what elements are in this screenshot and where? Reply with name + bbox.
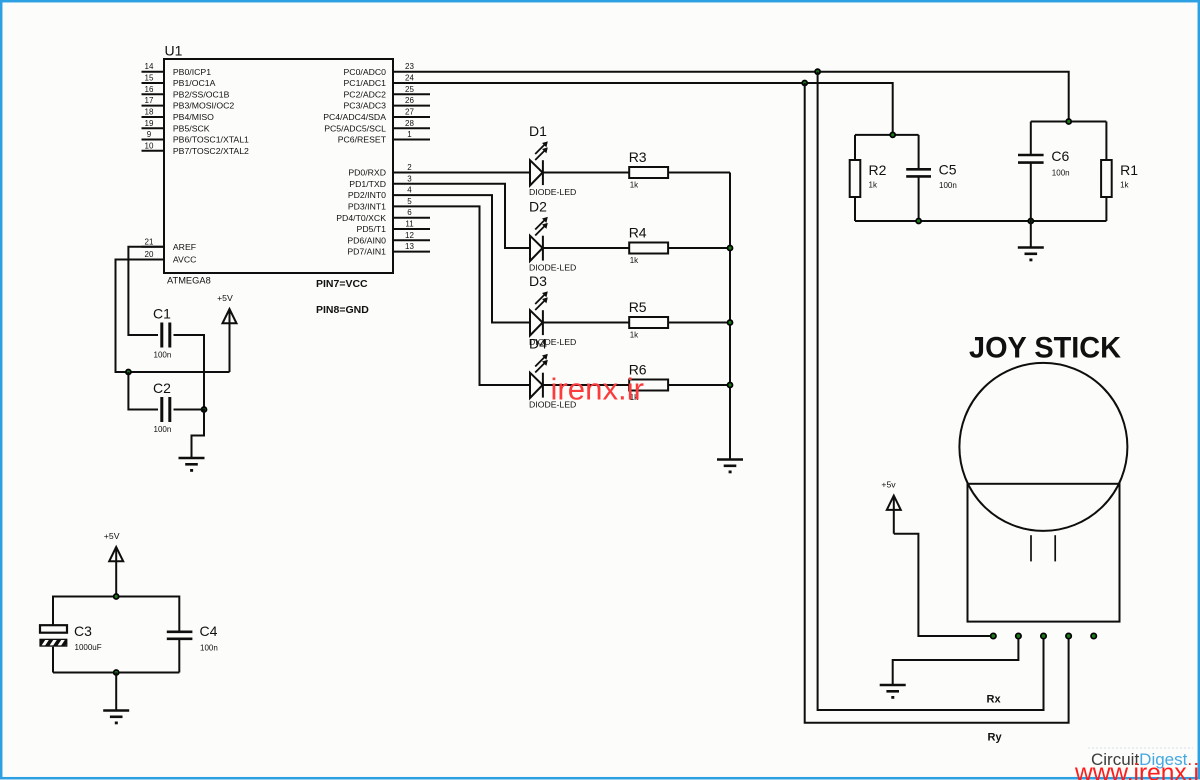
svg-text:25: 25 — [405, 85, 414, 94]
wire D4 cathode to R6 — [543, 384, 629, 386]
svg-text:100n: 100n — [154, 425, 172, 434]
junction node rail/R6 — [728, 383, 733, 388]
svg-text:19: 19 — [145, 119, 154, 128]
wire R2/C5 top rail — [855, 134, 919, 136]
svg-text:1k: 1k — [630, 331, 639, 340]
wire C4 to bottom rail — [178, 639, 180, 673]
svg-text:100n: 100n — [1052, 169, 1070, 178]
U1 pin 18 (PB4/MISO) — [142, 108, 215, 123]
U1 pin 19 (PB5/SCK) — [142, 119, 210, 134]
svg-text:23: 23 — [405, 62, 414, 71]
svg-text:D4: D4 — [529, 336, 547, 352]
capacitor C4 — [167, 632, 193, 639]
svg-text:1k: 1k — [630, 181, 639, 190]
svg-text:ATMEGA8: ATMEGA8 — [167, 276, 211, 286]
U1 pin 16 (PB2/SS/OC1B) — [142, 85, 230, 100]
svg-text:PC3/ADC3: PC3/ADC3 — [344, 101, 387, 111]
svg-text:18: 18 — [145, 108, 154, 117]
svg-text:4: 4 — [407, 186, 412, 195]
svg-text:R4: R4 — [629, 225, 647, 241]
svg-text:Rx: Rx — [987, 694, 1002, 706]
svg-text:R1: R1 — [1120, 162, 1138, 178]
resistor R1 (1k, vertical) — [1101, 160, 1112, 197]
joystick pin 3 — [1041, 633, 1046, 638]
wire R2 top lead — [854, 135, 856, 160]
svg-text:21: 21 — [145, 237, 154, 246]
wire to ground (analog rail) — [1030, 221, 1032, 247]
svg-text:20: 20 — [145, 250, 154, 259]
svg-text:1000uF: 1000uF — [75, 643, 102, 652]
U1 pin 12 (PD6/AIN0) — [347, 231, 430, 246]
svg-text:14: 14 — [145, 62, 154, 71]
+5V supply arrow (AVCC) — [223, 309, 237, 372]
svg-text:PD1/TXD: PD1/TXD — [349, 179, 386, 189]
wire PD0/RXD (pin 2) to D1 — [430, 172, 530, 174]
joystick pin 5 — [1091, 633, 1096, 638]
junction node C5/bottom rail — [916, 219, 921, 224]
wire C5 bottom lead — [918, 176, 920, 221]
joystick ball (circle) — [959, 363, 1127, 531]
wire Rx net vertical down to joystick — [818, 72, 1044, 710]
svg-text:PD0/RXD: PD0/RXD — [348, 168, 386, 178]
svg-text:D3: D3 — [529, 273, 547, 289]
IC U1 (ATMEGA8) body — [164, 59, 393, 273]
wire AREF (pin 21) to C1 — [128, 247, 164, 335]
svg-text:1k: 1k — [630, 256, 639, 265]
svg-text:C5: C5 — [939, 162, 957, 178]
LED D1 (DIODE-LED) — [530, 141, 548, 185]
LED D2 (DIODE-LED) — [530, 217, 548, 261]
capacitor C2 (100n) plates — [162, 397, 170, 422]
svg-text:PB1/OC1A: PB1/OC1A — [173, 78, 216, 88]
ground (LED rail) — [717, 460, 743, 472]
wire C3/C4 bottom rail — [53, 672, 179, 674]
svg-text:PC6/RESET: PC6/RESET — [338, 135, 387, 145]
svg-text:12: 12 — [405, 231, 414, 240]
svg-text:www.irenx.ir: www.irenx.ir — [1074, 760, 1200, 780]
svg-text:2: 2 — [407, 163, 412, 172]
joystick pin 2 — [1016, 633, 1021, 638]
svg-text:R3: R3 — [629, 149, 647, 165]
U1 pin 26 (PC3/ADC3) — [344, 96, 431, 111]
svg-text:PD7/AIN1: PD7/AIN1 — [347, 247, 386, 257]
svg-text:D2: D2 — [529, 199, 547, 215]
wire +5V rail C3/C4 top — [53, 597, 179, 632]
resistor R5 (1k, horizontal) — [629, 317, 668, 328]
svg-text:DIODE-LED: DIODE-LED — [529, 187, 576, 197]
LED D3 (DIODE-LED) — [530, 291, 548, 335]
junction node PC0 net / C6-R1 top — [1066, 119, 1071, 124]
svg-text:3: 3 — [407, 174, 412, 183]
svg-text:JOY STICK: JOY STICK — [969, 332, 1121, 365]
+5V supply arrow (joystick) — [887, 496, 901, 534]
svg-text:AVCC: AVCC — [173, 255, 197, 265]
svg-text:PB6/TOSC1/XTAL1: PB6/TOSC1/XTAL1 — [173, 135, 249, 145]
U1 pin 5 (PD3/INT1) — [348, 197, 430, 212]
svg-text:PB3/MOSI/OC2: PB3/MOSI/OC2 — [173, 101, 234, 111]
junction node AVCC/C2 branch — [126, 370, 131, 375]
svg-text:5: 5 — [407, 197, 412, 206]
svg-text:26: 26 — [405, 96, 414, 105]
wire R1 bottom lead — [1105, 197, 1107, 221]
ground (joystick) — [880, 685, 906, 697]
U1 pin 25 (PC2/ADC2) — [344, 85, 431, 100]
svg-text:PC2/ADC2: PC2/ADC2 — [344, 89, 387, 99]
wire R3 to common rail — [668, 172, 730, 174]
junction node rail/R5 — [728, 320, 733, 325]
junction node on PC1 net (Ry tap) — [802, 81, 807, 86]
svg-text:1k: 1k — [869, 181, 878, 190]
wire AVCC (pin 20) to +5V rail — [116, 260, 230, 373]
junction node on PC0 net (Rx tap) — [815, 69, 820, 74]
svg-text:PIN7=VCC: PIN7=VCC — [316, 278, 368, 290]
U1 pin 11 (PD5/T1) — [357, 220, 430, 235]
junction node C6/ground rail — [1028, 219, 1033, 224]
junction node PC1 net / R2-C5 top — [890, 132, 895, 137]
ground (analog rail) — [1018, 248, 1044, 260]
joystick stick legs — [1031, 535, 1055, 561]
junction node +5V/C3/C4 — [114, 594, 119, 599]
wire Ry net vertical down to joystick — [805, 83, 1069, 723]
junction node C3/C4 ground — [114, 670, 119, 675]
svg-text:27: 27 — [405, 108, 414, 117]
wire to ground (C3/C4) — [115, 673, 117, 711]
svg-text:PIN8=GND: PIN8=GND — [316, 304, 369, 316]
wire R2 bottom lead — [854, 197, 856, 221]
wire R6 to common rail — [668, 384, 730, 386]
svg-text:PC5/ADC5/SCL: PC5/ADC5/SCL — [324, 123, 386, 133]
svg-text:C2: C2 — [153, 380, 171, 396]
junction node C2/ground branch — [202, 407, 207, 412]
svg-text:C4: C4 — [200, 623, 218, 639]
svg-text:AREF: AREF — [173, 242, 196, 252]
wire PD2/INT0 (pin 4) to D3 — [430, 195, 530, 322]
svg-text:PD3/INT1: PD3/INT1 — [348, 202, 386, 212]
capacitor C6 — [1018, 155, 1044, 163]
wire D2 cathode to R4 — [543, 247, 629, 249]
svg-text:9: 9 — [147, 130, 152, 139]
ground (C2) — [179, 458, 205, 470]
svg-text:PD4/T0/XCK: PD4/T0/XCK — [336, 213, 386, 223]
svg-text:1: 1 — [407, 130, 412, 139]
U1 pin 14 (PB0/ICP1) — [142, 62, 212, 77]
svg-text:irenx.ir: irenx.ir — [551, 372, 645, 407]
wire PD3/INT1 (pin 5) to D4 — [430, 206, 530, 385]
wire LED common rail down to ground — [729, 173, 731, 460]
svg-text:13: 13 — [405, 242, 414, 251]
wire D1 cathode to R3 — [543, 172, 629, 174]
wire R4 to common rail — [668, 247, 730, 249]
svg-text:D1: D1 — [529, 123, 547, 139]
ground (C3/C4) — [103, 711, 129, 723]
+5V supply arrow (C3/C4) — [109, 547, 123, 597]
resistor R3 (1k, horizontal) — [629, 167, 668, 178]
wire C1 right plate down across +5V rail to C2 node — [174, 335, 205, 410]
U1 pin 27 (PC4/ADC4/SDA) — [323, 108, 430, 123]
svg-text:PB4/MISO: PB4/MISO — [173, 112, 214, 122]
svg-text:24: 24 — [405, 74, 414, 83]
svg-text:PC0/ADC0: PC0/ADC0 — [344, 67, 387, 77]
svg-text:15: 15 — [145, 74, 154, 83]
svg-text:PB2/SS/OC1B: PB2/SS/OC1B — [173, 89, 230, 99]
U1 pin 1 (PC6/RESET) — [338, 130, 430, 145]
svg-text:C6: C6 — [1051, 148, 1069, 164]
svg-text:PD6/AIN0: PD6/AIN0 — [347, 235, 386, 245]
U1 pin 15 (PB1/OC1A) — [142, 74, 216, 89]
svg-text:17: 17 — [145, 96, 154, 105]
svg-text:PB0/ICP1: PB0/ICP1 — [173, 67, 211, 77]
svg-text:DIODE-LED: DIODE-LED — [529, 263, 576, 273]
resistor R4 (1k, horizontal) — [629, 243, 668, 254]
resistor R2 (1k, vertical) — [850, 160, 861, 197]
svg-text:PD2/INT0: PD2/INT0 — [348, 190, 386, 200]
wire C6 bottom lead — [1030, 163, 1032, 221]
U1 pin 10 (PB7/TOSC2/XTAL2) — [142, 141, 250, 156]
wire C6 top lead — [1030, 122, 1032, 156]
svg-text:PC4/ADC4/SDA: PC4/ADC4/SDA — [323, 112, 386, 122]
U1 pin 6 (PD4/T0/XCK) — [336, 208, 430, 223]
wire joystick pin 2 to ground — [893, 639, 1019, 685]
capacitor C3 (1000uF electrolytic) — [39, 625, 73, 649]
wire PC0/ADC0 (pin 23) to C6/R1 block — [430, 72, 1069, 122]
joystick body (rectangle) — [968, 484, 1120, 622]
svg-text:100n: 100n — [154, 351, 172, 360]
wire C2 left plate up to AVCC rail — [128, 372, 158, 410]
wire PC1/ADC1 (pin 24) to R2/C5 block — [430, 83, 893, 135]
svg-text:PB7/TOSC2/XTAL2: PB7/TOSC2/XTAL2 — [173, 146, 249, 156]
dotted separator above logo — [1088, 747, 1193, 749]
wire analog block bottom rail — [855, 220, 1106, 222]
U1 pin 3 (PD1/TXD) — [349, 174, 430, 189]
U1 pin 20 (AVCC) — [142, 250, 197, 265]
svg-text:PC1/ADC1: PC1/ADC1 — [344, 78, 387, 88]
svg-text:PB5/SCK: PB5/SCK — [173, 123, 210, 133]
wire R5 to common rail — [668, 322, 730, 324]
svg-text:U1: U1 — [165, 43, 183, 59]
capacitor C5 — [906, 169, 931, 176]
svg-text:PD5/T1: PD5/T1 — [357, 224, 387, 234]
svg-text:11: 11 — [405, 220, 414, 229]
wire PD1/TXD (pin 3) to D2 — [430, 184, 530, 248]
junction node rail/R4 — [728, 246, 733, 251]
U1 pin 9 (PB6/TOSC1/XTAL1) — [142, 130, 250, 145]
svg-text:100n: 100n — [200, 644, 218, 653]
wire +5v to joystick pin 1 — [894, 534, 991, 636]
wire C3 to bottom rail — [52, 647, 54, 673]
U1 pin 21 (AREF) — [142, 237, 197, 252]
wire C5 top lead — [918, 135, 920, 169]
svg-text:1k: 1k — [1120, 181, 1129, 190]
U1 pin 23 (PC0/ADC0) — [344, 62, 431, 77]
U1 pin 28 (PC5/ADC5/SCL) — [324, 119, 430, 134]
svg-text:6: 6 — [407, 208, 412, 217]
svg-text:+5V: +5V — [217, 293, 233, 303]
svg-text:28: 28 — [405, 119, 414, 128]
svg-text:R2: R2 — [869, 162, 887, 178]
U1 pin 13 (PD7/AIN1) — [347, 242, 430, 257]
svg-text:R5: R5 — [629, 299, 647, 315]
U1 pin 4 (PD2/INT0) — [348, 186, 430, 201]
svg-text:+5V: +5V — [104, 531, 120, 541]
resistor R6 (1k, horizontal) — [629, 380, 668, 391]
joystick pin 4 — [1066, 633, 1071, 638]
wire R1 top lead — [1105, 122, 1107, 161]
U1 pin 2 (PD0/RXD) — [348, 163, 430, 178]
svg-text:+5v: +5v — [881, 480, 896, 490]
svg-text:Ry: Ry — [988, 732, 1003, 744]
svg-text:16: 16 — [145, 85, 154, 94]
svg-text:C1: C1 — [153, 306, 171, 322]
capacitor C1 (100n) plates — [162, 323, 170, 348]
wire D3 cathode to R5 — [543, 322, 629, 324]
LED D4 (DIODE-LED) — [530, 354, 548, 398]
wire C6/R1 top rail — [1031, 121, 1107, 123]
svg-text:100n: 100n — [939, 181, 957, 190]
wire C2 node to ground — [174, 410, 205, 458]
joystick pin 1 — [991, 633, 996, 638]
svg-text:C3: C3 — [74, 623, 92, 639]
U1 pin 24 (PC1/ADC1) — [344, 74, 431, 89]
svg-text:10: 10 — [145, 141, 154, 150]
U1 pin 17 (PB3/MOSI/OC2) — [142, 96, 235, 111]
